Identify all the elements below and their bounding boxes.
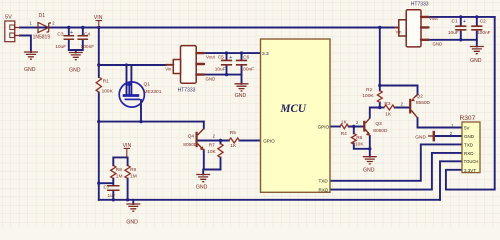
- wire: bottom rail: [99, 199, 440, 201]
- svg-text:GND: GND: [69, 68, 81, 74]
- node: C6 top: [240, 51, 243, 54]
- resistor R9 1M: [125, 165, 137, 179]
- wire: HT7333#2 Vout row: [429, 16, 495, 18]
- wire: C5 bottom stub: [226, 66, 228, 75]
- wire: R2 bottom stub: [379, 103, 381, 108]
- wire: R307 pin3 TXD to MCU TXD: [330, 144, 462, 180]
- wire: R307 pin2 to GND arrow: [435, 135, 462, 137]
- svg-text:10uF: 10uF: [448, 30, 459, 36]
- wire: R3 row: [380, 107, 384, 109]
- svg-text:10uF: 10uF: [215, 66, 226, 72]
- node: Q1 gate on y121.6: [139, 120, 142, 123]
- wire: R4 to Q3 base: [349, 126, 364, 128]
- wire: top rail 5V/VIN from connector to HT7333#2 Vin: [20, 27, 395, 29]
- wire: HT7333#1 Vout row to MCU 3.3: [205, 52, 261, 54]
- svg-text:R7: R7: [209, 142, 215, 148]
- wire: R307 pin6 3.3VT loop to HT7333#2 Vout: [446, 17, 495, 190]
- svg-text:+: +: [229, 55, 232, 61]
- ground GND (Q4): [196, 175, 210, 191]
- ground GND (connector): [24, 52, 38, 73]
- transistor Q3 8050D: [356, 118, 388, 136]
- wire: C3 tap: [68, 28, 70, 36]
- node: C1 top: [459, 15, 462, 18]
- transistor Q1 ME2301 MOSFET: [119, 81, 161, 107]
- svg-text:D1: D1: [39, 13, 46, 19]
- svg-text:Q4: Q4: [188, 134, 195, 140]
- resistor R6 10K: [351, 133, 364, 147]
- svg-text:C6: C6: [243, 55, 249, 61]
- wire: C2 bottom stub to GND: [476, 32, 478, 47]
- node: VIN junction: [97, 26, 100, 29]
- wire: R6 stubs: [353, 127, 355, 134]
- svg-text:GND: GND: [433, 41, 443, 46]
- svg-text:RXD: RXD: [464, 151, 474, 156]
- capacitor C3 10uF: [55, 30, 74, 50]
- node: R9 bottom on rail: [126, 198, 129, 201]
- svg-text:HT7333: HT7333: [411, 1, 429, 7]
- wire: Q3 emitter down to GND: [369, 136, 371, 157]
- svg-text:100nF: 100nF: [81, 44, 95, 50]
- svg-text:C4: C4: [84, 32, 90, 38]
- ground GND (C3/C4): [69, 53, 83, 74]
- svg-text:100nF: 100nF: [477, 30, 491, 36]
- wire: left vertical VIN down through R1 to bottom rail: [98, 28, 100, 78]
- node: C2 top: [475, 15, 478, 18]
- svg-text:TOUCH: TOUCH: [464, 159, 479, 164]
- svg-text:100K: 100K: [102, 88, 114, 94]
- svg-text:10K: 10K: [207, 149, 216, 155]
- svg-text:Q2: Q2: [416, 94, 423, 100]
- resistor R8 1M: [111, 165, 123, 179]
- wire: GND stem below C3/C4: [75, 50, 77, 53]
- wire: C3/C4 bottoms to GND: [69, 40, 83, 51]
- svg-text:3.3: 3.3: [262, 51, 269, 57]
- wire: R2 top stub to rail: [379, 28, 381, 91]
- transistor Q2 8550D: [401, 94, 431, 118]
- wire: Q4 base row to MCU GPIO: [198, 140, 229, 142]
- svg-text:Vout: Vout: [429, 16, 439, 21]
- connector J1 5V input header: [5, 15, 20, 42]
- capacitor C4 100nF: [78, 32, 95, 50]
- svg-text:+: +: [463, 19, 466, 25]
- svg-text:GND: GND: [24, 67, 36, 73]
- node: R8 branch: [97, 182, 100, 185]
- node: C1 bottom: [459, 38, 462, 41]
- svg-text:GPIO: GPIO: [318, 124, 330, 129]
- svg-text:Q3: Q3: [375, 121, 382, 127]
- node: gate row branch: [97, 120, 100, 123]
- svg-text:R307: R307: [460, 115, 476, 122]
- wire: C5 stub top: [226, 53, 228, 60]
- svg-text:HT7333: HT7333: [178, 88, 196, 94]
- resistor R7 10K: [207, 142, 223, 157]
- resistor R3 1K: [384, 101, 395, 118]
- wire: GND stem below Q4: [202, 170, 204, 175]
- node: R6 bottom / emitter: [368, 147, 371, 150]
- wire: Q2 collector to R307 pin1: [418, 118, 463, 128]
- capacitor C7 1uF: [104, 184, 120, 198]
- ground GND (C2): [470, 47, 484, 64]
- svg-text:C2: C2: [480, 18, 486, 24]
- diode D1 1N5819: [30, 13, 56, 41]
- svg-text:GND: GND: [126, 220, 138, 226]
- svg-text:8550D: 8550D: [416, 100, 431, 106]
- svg-text:GND: GND: [196, 185, 208, 191]
- svg-text:+: +: [70, 30, 73, 36]
- svg-text:100nF: 100nF: [241, 66, 255, 72]
- svg-text:5V: 5V: [5, 15, 12, 21]
- wire: R7 stubs: [220, 141, 222, 144]
- svg-text:Vin: Vin: [165, 66, 172, 71]
- capacitor C1 10uF: [448, 18, 467, 36]
- node: R2 branch on rail: [378, 26, 381, 29]
- svg-text:R4: R4: [341, 131, 347, 137]
- wire: branch y65 to Q1 tops and HT7333#1 Vin: [99, 64, 166, 66]
- node: C7 bottom on rail: [112, 198, 115, 201]
- node: R2 top / Q2 emitter: [378, 84, 381, 87]
- wire: R307 pin4 RXD to MCU RXD: [330, 153, 462, 190]
- svg-text:GND: GND: [415, 134, 426, 140]
- node: R7 top on base row: [219, 139, 222, 142]
- svg-text:C3: C3: [57, 32, 63, 38]
- svg-text:R3: R3: [384, 101, 390, 107]
- node: C5 top: [225, 51, 228, 54]
- svg-text:8050D: 8050D: [373, 128, 388, 134]
- svg-text:3.3VT: 3.3VT: [464, 168, 476, 173]
- wire: C6 bottom stub to GND: [241, 66, 243, 84]
- wire: Q1 source stub: [126, 65, 128, 94]
- node: C5 bottom: [225, 73, 228, 76]
- svg-text:R8: R8: [116, 167, 122, 173]
- wire: C7 bottom to bottom rail: [112, 191, 114, 200]
- power port GND arrow (R307 pin2): [415, 131, 434, 142]
- svg-text:GPIO: GPIO: [263, 139, 275, 144]
- capacitor C6 100nF: [236, 55, 254, 73]
- node: C4 tap: [81, 26, 84, 29]
- svg-text:1uF: 1uF: [108, 193, 116, 198]
- svg-text:MCU: MCU: [280, 103, 307, 115]
- svg-text:TXD: TXD: [319, 179, 329, 184]
- ground GND (Q3): [363, 157, 377, 174]
- wire: C2 stub top: [476, 17, 478, 26]
- wire: R9 bottom to rail: [127, 179, 129, 200]
- svg-text:Vout: Vout: [206, 55, 216, 60]
- svg-text:5V: 5V: [464, 126, 470, 131]
- regulator U1 HT7333: [165, 46, 215, 94]
- resistor R4 1K: [340, 119, 349, 137]
- svg-text:10uF: 10uF: [55, 44, 66, 50]
- wire: Q3 collector up: [370, 108, 380, 118]
- svg-text:GND: GND: [235, 93, 247, 99]
- node: y65 branch: [97, 63, 100, 66]
- svg-text:ME2301: ME2301: [144, 89, 162, 95]
- svg-text:1M: 1M: [116, 174, 123, 180]
- ground GND (C6): [235, 84, 249, 99]
- svg-text:Q1: Q1: [144, 82, 151, 88]
- node: C3 tap: [67, 26, 70, 29]
- capacitor C5 10uF: [215, 55, 233, 73]
- ground GND (bottom rail): [126, 204, 140, 226]
- power port VIN (lower): [123, 143, 132, 157]
- wire: HT7333#2 GND row: [429, 39, 477, 41]
- regulator U3 HT7333 (top right): [395, 1, 442, 47]
- node: R2/R3/Q3 junction: [378, 106, 381, 109]
- wire: R8 bottom to C7 top, branch to left vertical: [99, 179, 114, 186]
- svg-text:1K: 1K: [341, 119, 348, 125]
- wire: GND stem below bottom rail: [132, 200, 134, 204]
- capacitor C2 100nF: [471, 18, 490, 36]
- svg-text:R9: R9: [130, 167, 136, 173]
- wire: C4 tap: [82, 28, 84, 36]
- svg-text:100K: 100K: [362, 93, 374, 99]
- svg-text:TXD: TXD: [464, 143, 474, 148]
- wire: Q1 substrate stub: [130, 65, 132, 94]
- svg-text:Vin: Vin: [396, 29, 403, 34]
- wire: C1 stub top: [460, 17, 462, 26]
- svg-text:1K: 1K: [230, 143, 237, 149]
- transistor Q4 8050D: [183, 129, 215, 151]
- node: R6 top: [352, 125, 355, 128]
- resistor R5 1K: [229, 130, 240, 149]
- resistor R1 100K: [96, 77, 113, 94]
- svg-text:R6: R6: [356, 135, 362, 141]
- svg-text:GND: GND: [464, 134, 475, 139]
- svg-text:8050D: 8050D: [183, 142, 198, 148]
- MCU U2 block: [261, 39, 331, 193]
- wire: C6 stub top: [241, 53, 243, 60]
- svg-text:C5: C5: [218, 55, 224, 61]
- svg-text:1N5819: 1N5819: [33, 35, 51, 41]
- svg-text:GND: GND: [363, 167, 375, 173]
- svg-text:1M: 1M: [130, 174, 137, 180]
- svg-text:R5: R5: [230, 130, 236, 136]
- svg-text:10K: 10K: [355, 141, 364, 147]
- wire: HT7333#1 GND row: [205, 74, 242, 76]
- svg-text:1K: 1K: [385, 112, 392, 118]
- power port VIN (top): [94, 15, 103, 28]
- wire: C1 bottom stub: [460, 32, 462, 40]
- wire: connector pin2 to GND: [20, 36, 31, 53]
- connector R307: [450, 115, 480, 173]
- svg-text:RXD: RXD: [319, 188, 329, 193]
- wire: Q1 gate stub down: [140, 100, 142, 122]
- node: Q1 source tap: [125, 63, 128, 66]
- wire: Q4 emitter to GND corner: [204, 150, 221, 169]
- svg-text:GND: GND: [470, 58, 482, 64]
- wire: R307 pin5 TOUCH to bottom rail: [440, 161, 462, 200]
- svg-text:C7: C7: [104, 184, 110, 189]
- svg-text:R1: R1: [103, 79, 109, 85]
- wire: gate row y121.6: [99, 121, 204, 123]
- wire: Q4 collector stub: [203, 122, 205, 129]
- svg-text:C1: C1: [452, 18, 458, 24]
- wire: Q2 emitter up and over to R2 top: [380, 86, 418, 95]
- wire: MCU right GPIO to R4: [330, 126, 340, 128]
- resistor R2 100K: [362, 87, 382, 103]
- wire: R8/R9 top tie: [113, 157, 127, 165]
- svg-text:R2: R2: [366, 87, 372, 93]
- svg-text:GND: GND: [206, 76, 216, 81]
